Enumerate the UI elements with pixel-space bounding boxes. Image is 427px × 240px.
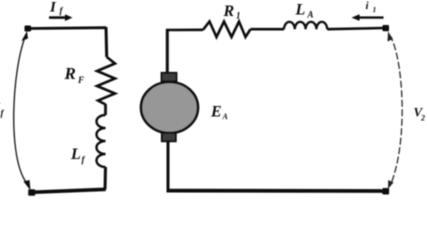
svg-text:I: I	[49, 0, 57, 16]
svg-text:R: R	[223, 3, 235, 20]
svg-text:2: 2	[420, 114, 425, 123]
svg-text:A: A	[307, 10, 314, 20]
svg-text:1: 1	[373, 5, 377, 14]
svg-text:f: f	[82, 155, 86, 165]
svg-text:E: E	[210, 104, 222, 121]
svg-text:1: 1	[236, 11, 241, 21]
svg-text:A: A	[222, 112, 229, 121]
svg-text:F: F	[77, 75, 84, 85]
svg-text:L: L	[70, 146, 81, 163]
svg-text:R: R	[64, 64, 76, 83]
svg-text:L: L	[295, 2, 306, 19]
svg-text:f: f	[60, 6, 64, 16]
svg-text:i: i	[366, 0, 370, 12]
svg-text:f: f	[1, 108, 5, 118]
